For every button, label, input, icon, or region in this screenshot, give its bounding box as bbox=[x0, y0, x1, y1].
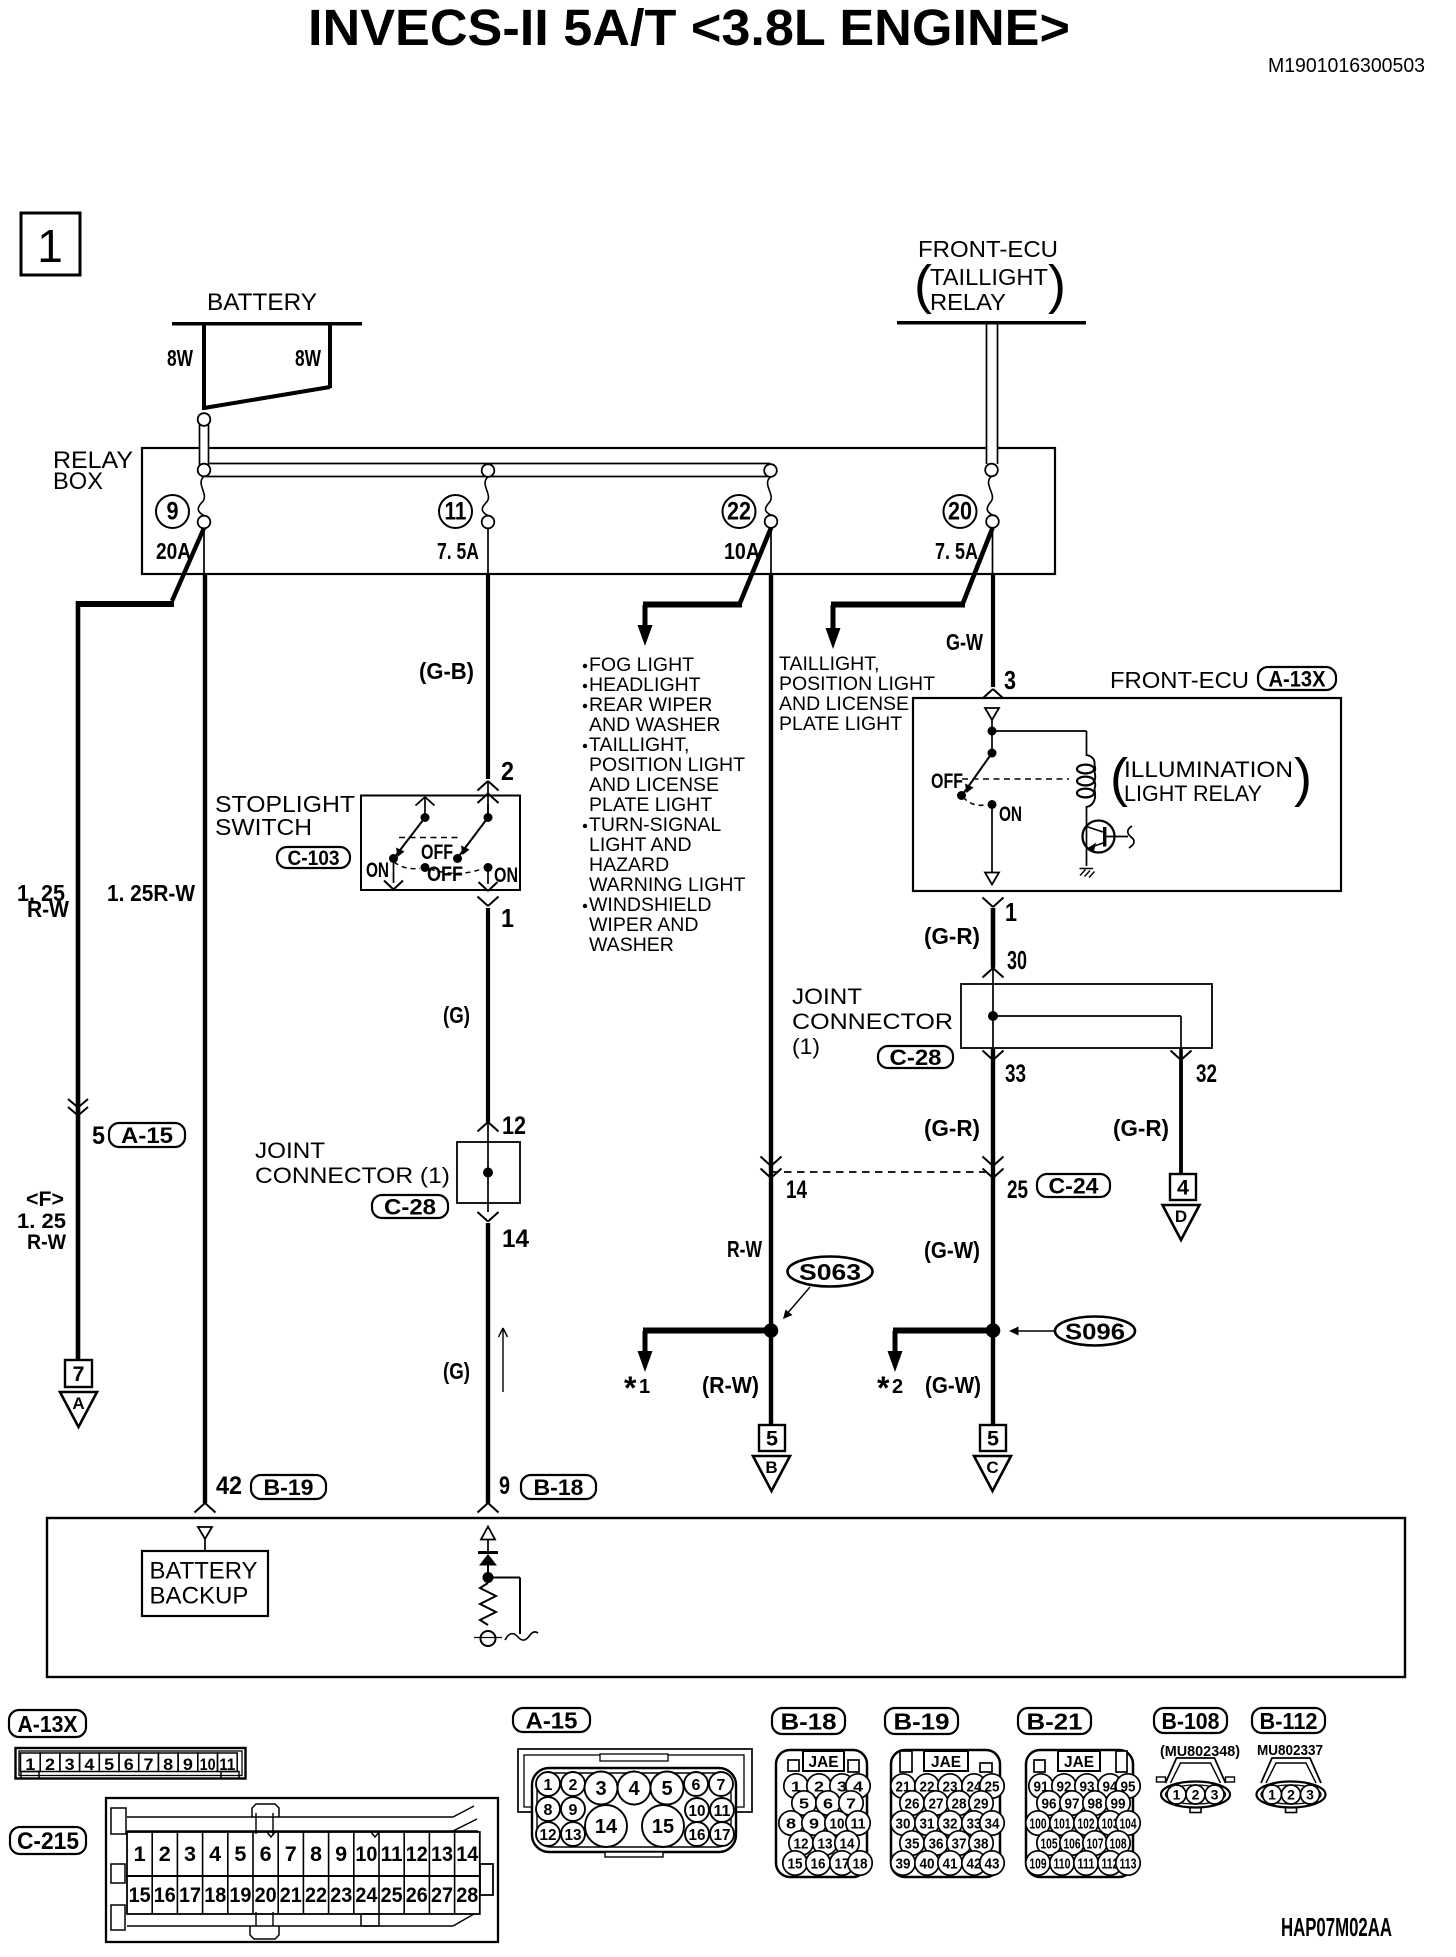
svg-text:R-W: R-W bbox=[27, 896, 69, 922]
svg-text:113: 113 bbox=[1120, 1855, 1137, 1872]
svg-text:104: 104 bbox=[1120, 1815, 1137, 1832]
svg-text:7. 5A: 7. 5A bbox=[437, 538, 479, 564]
svg-text:TAILLIGHT,: TAILLIGHT, bbox=[779, 653, 879, 675]
svg-text:43: 43 bbox=[985, 1855, 1000, 1872]
svg-text:16: 16 bbox=[811, 1855, 826, 1872]
svg-text:14: 14 bbox=[840, 1835, 856, 1852]
svg-text:R-W: R-W bbox=[27, 1231, 66, 1254]
svg-text:15: 15 bbox=[652, 1816, 674, 1838]
svg-text:TAILLIGHT,: TAILLIGHT, bbox=[589, 734, 689, 756]
svg-text:A-13X: A-13X bbox=[18, 1711, 79, 1737]
svg-text:14: 14 bbox=[456, 1843, 478, 1866]
svg-text:12: 12 bbox=[406, 1843, 428, 1866]
svg-text:INVECS-II 5A/T <3.8L ENGINE>: INVECS-II 5A/T <3.8L ENGINE> bbox=[308, 0, 1070, 56]
svg-text:30: 30 bbox=[896, 1815, 911, 1832]
svg-text:JAE: JAE bbox=[931, 1754, 961, 1771]
svg-text:B-21: B-21 bbox=[1027, 1708, 1083, 1734]
svg-text:CONNECTOR (1): CONNECTOR (1) bbox=[255, 1163, 450, 1188]
svg-text:7. 5A: 7. 5A bbox=[935, 538, 978, 564]
svg-text:C-215: C-215 bbox=[17, 1828, 79, 1855]
svg-text:8W: 8W bbox=[167, 345, 193, 371]
svg-text:3: 3 bbox=[65, 1755, 75, 1774]
svg-text:27: 27 bbox=[929, 1795, 944, 1812]
svg-text:1. 25R-W: 1. 25R-W bbox=[107, 880, 195, 906]
svg-text:6: 6 bbox=[823, 1795, 833, 1812]
svg-text:10: 10 bbox=[200, 1755, 216, 1774]
svg-text:28: 28 bbox=[952, 1795, 967, 1812]
svg-text:2: 2 bbox=[501, 756, 514, 786]
svg-text:25: 25 bbox=[1007, 1176, 1028, 1204]
svg-text:C-28: C-28 bbox=[890, 1045, 942, 1070]
svg-text:9: 9 bbox=[167, 498, 179, 526]
svg-text:C-28: C-28 bbox=[384, 1194, 436, 1219]
svg-text:10: 10 bbox=[355, 1843, 377, 1866]
svg-text:(G-W): (G-W) bbox=[925, 1372, 981, 1398]
svg-text:HEADLIGHT: HEADLIGHT bbox=[589, 674, 701, 696]
svg-text:9: 9 bbox=[569, 1802, 578, 1819]
svg-text:39: 39 bbox=[896, 1855, 911, 1872]
svg-text:8: 8 bbox=[310, 1843, 322, 1866]
svg-text:4: 4 bbox=[84, 1755, 95, 1774]
svg-text:42: 42 bbox=[216, 1472, 242, 1500]
svg-text:26: 26 bbox=[406, 1884, 428, 1907]
svg-text:16: 16 bbox=[689, 1827, 706, 1844]
svg-text:107: 107 bbox=[1087, 1835, 1104, 1852]
svg-text:14: 14 bbox=[595, 1816, 618, 1838]
svg-text:(G-R): (G-R) bbox=[924, 923, 980, 949]
svg-text:7: 7 bbox=[285, 1843, 297, 1866]
svg-text:RELAY: RELAY bbox=[930, 289, 1006, 315]
svg-text:17: 17 bbox=[179, 1884, 201, 1907]
svg-text:3: 3 bbox=[1004, 665, 1016, 695]
svg-text:JOINT: JOINT bbox=[255, 1138, 325, 1163]
svg-text:5: 5 bbox=[104, 1755, 114, 1774]
svg-text:(R-W): (R-W) bbox=[702, 1372, 759, 1398]
svg-text:AND LICENSE: AND LICENSE bbox=[779, 693, 909, 715]
svg-text:11: 11 bbox=[714, 1803, 731, 1820]
svg-text:28: 28 bbox=[456, 1884, 478, 1907]
svg-text:33: 33 bbox=[1005, 1060, 1026, 1088]
svg-text:LIGHT AND: LIGHT AND bbox=[589, 834, 692, 856]
svg-text:11: 11 bbox=[851, 1815, 866, 1832]
svg-text:109: 109 bbox=[1030, 1855, 1047, 1872]
svg-text:REAR WIPER: REAR WIPER bbox=[589, 694, 713, 716]
svg-text:10: 10 bbox=[689, 1803, 706, 1820]
svg-text:A-15: A-15 bbox=[526, 1707, 578, 1733]
svg-text:102: 102 bbox=[1078, 1815, 1095, 1832]
svg-text:WINDSHIELD: WINDSHIELD bbox=[589, 894, 711, 916]
svg-text:10: 10 bbox=[830, 1815, 845, 1832]
svg-text:4: 4 bbox=[209, 1843, 221, 1866]
svg-text:29: 29 bbox=[974, 1795, 989, 1812]
svg-text:3: 3 bbox=[595, 1778, 606, 1800]
svg-text:B-18: B-18 bbox=[781, 1708, 837, 1734]
svg-text:A-15: A-15 bbox=[121, 1123, 173, 1148]
svg-text:1: 1 bbox=[1268, 1787, 1276, 1803]
svg-text:41: 41 bbox=[943, 1855, 958, 1872]
svg-text:R-W: R-W bbox=[727, 1236, 762, 1262]
svg-text:11: 11 bbox=[445, 498, 467, 526]
svg-text:1: 1 bbox=[544, 1777, 553, 1794]
svg-text:): ) bbox=[1048, 255, 1066, 315]
svg-text:6: 6 bbox=[692, 1777, 701, 1794]
svg-text:D: D bbox=[1175, 1207, 1187, 1226]
svg-text:BACKUP: BACKUP bbox=[150, 1583, 249, 1610]
svg-text:B-19: B-19 bbox=[894, 1708, 950, 1734]
svg-text:BATTERY: BATTERY bbox=[150, 1558, 258, 1585]
svg-text:FOG LIGHT: FOG LIGHT bbox=[589, 654, 694, 676]
svg-text:31: 31 bbox=[920, 1815, 935, 1832]
svg-text:13: 13 bbox=[818, 1835, 833, 1852]
svg-text:8: 8 bbox=[544, 1802, 553, 1819]
svg-text:AND LICENSE: AND LICENSE bbox=[589, 774, 719, 796]
svg-text:9: 9 bbox=[335, 1843, 347, 1866]
svg-text:20A: 20A bbox=[156, 538, 191, 564]
svg-text:5: 5 bbox=[234, 1843, 246, 1866]
svg-text:32: 32 bbox=[943, 1815, 958, 1832]
svg-text:110: 110 bbox=[1054, 1855, 1071, 1872]
svg-text:ON: ON bbox=[366, 858, 389, 882]
svg-text:): ) bbox=[1294, 748, 1312, 808]
svg-text:(G-R): (G-R) bbox=[924, 1115, 980, 1141]
svg-text:14: 14 bbox=[502, 1225, 529, 1253]
svg-text:13: 13 bbox=[565, 1827, 582, 1844]
svg-text:12: 12 bbox=[502, 1112, 526, 1140]
svg-text:WIPER AND: WIPER AND bbox=[589, 914, 698, 936]
svg-text:20: 20 bbox=[255, 1884, 277, 1907]
svg-text:(G-B): (G-B) bbox=[419, 658, 474, 684]
svg-text:2: 2 bbox=[892, 1376, 903, 1398]
svg-text:A: A bbox=[72, 1394, 84, 1413]
svg-text:111: 111 bbox=[1078, 1855, 1095, 1872]
svg-text:CONNECTOR: CONNECTOR bbox=[792, 1009, 953, 1034]
svg-text:B-18: B-18 bbox=[534, 1475, 584, 1500]
svg-text:LIGHT RELAY: LIGHT RELAY bbox=[1124, 781, 1262, 806]
svg-text:G-W: G-W bbox=[946, 629, 983, 655]
svg-text:2: 2 bbox=[159, 1843, 171, 1866]
svg-text:OFF: OFF bbox=[421, 840, 453, 864]
svg-text:5: 5 bbox=[987, 1427, 999, 1451]
svg-text:17: 17 bbox=[714, 1827, 731, 1844]
svg-text:(G): (G) bbox=[443, 1358, 470, 1384]
svg-text:OFF: OFF bbox=[931, 769, 963, 793]
svg-text:21: 21 bbox=[280, 1884, 302, 1907]
svg-text:30: 30 bbox=[1007, 945, 1027, 975]
svg-text:1: 1 bbox=[501, 903, 514, 933]
svg-text:7: 7 bbox=[846, 1795, 856, 1812]
svg-text:HAP07M02AA: HAP07M02AA bbox=[1281, 1912, 1392, 1942]
svg-text:3: 3 bbox=[1211, 1787, 1219, 1803]
svg-text:25: 25 bbox=[381, 1884, 403, 1907]
svg-text:S096: S096 bbox=[1065, 1319, 1125, 1345]
svg-text:(G): (G) bbox=[443, 1002, 470, 1028]
svg-text:16: 16 bbox=[154, 1884, 176, 1907]
svg-text:24: 24 bbox=[355, 1884, 377, 1907]
svg-text:ON: ON bbox=[494, 863, 518, 887]
svg-text:POSITION LIGHT: POSITION LIGHT bbox=[779, 673, 935, 695]
svg-text:PLATE LIGHT: PLATE LIGHT bbox=[589, 794, 712, 816]
svg-text:6: 6 bbox=[260, 1843, 272, 1866]
svg-text:B-112: B-112 bbox=[1260, 1708, 1318, 1734]
svg-text:1: 1 bbox=[1005, 897, 1017, 927]
svg-text:9: 9 bbox=[809, 1815, 819, 1832]
svg-text:JAE: JAE bbox=[1064, 1754, 1094, 1771]
svg-text:8: 8 bbox=[786, 1815, 796, 1832]
svg-text:MU802337: MU802337 bbox=[1257, 1743, 1323, 1759]
svg-text:108: 108 bbox=[1110, 1835, 1127, 1852]
svg-text:12: 12 bbox=[540, 1827, 557, 1844]
svg-text:105: 105 bbox=[1041, 1835, 1058, 1852]
svg-text:32: 32 bbox=[1196, 1060, 1217, 1088]
svg-text:WARNING LIGHT: WARNING LIGHT bbox=[589, 874, 745, 896]
svg-text:7: 7 bbox=[144, 1755, 154, 1774]
svg-text:1: 1 bbox=[37, 220, 63, 272]
svg-text:<F>: <F> bbox=[26, 1188, 64, 1211]
svg-text:5: 5 bbox=[766, 1427, 778, 1451]
svg-text:HAZARD: HAZARD bbox=[589, 854, 669, 876]
svg-text:100: 100 bbox=[1030, 1815, 1047, 1832]
svg-text:C-24: C-24 bbox=[1049, 1173, 1100, 1198]
svg-text:18: 18 bbox=[204, 1884, 226, 1907]
svg-text:37: 37 bbox=[952, 1835, 967, 1852]
svg-text:TURN-SIGNAL: TURN-SIGNAL bbox=[589, 814, 721, 836]
svg-text:40: 40 bbox=[920, 1855, 935, 1872]
svg-text:98: 98 bbox=[1088, 1795, 1103, 1812]
svg-text:23: 23 bbox=[330, 1884, 352, 1907]
svg-text:ON: ON bbox=[999, 802, 1022, 826]
svg-text:6: 6 bbox=[124, 1755, 134, 1774]
svg-text:22: 22 bbox=[305, 1884, 327, 1907]
svg-text:18: 18 bbox=[853, 1855, 868, 1872]
svg-text:35: 35 bbox=[905, 1835, 920, 1852]
svg-text:7: 7 bbox=[73, 1362, 85, 1386]
svg-text:M1901016300503: M1901016300503 bbox=[1268, 55, 1425, 77]
svg-text:B-108: B-108 bbox=[1162, 1708, 1220, 1734]
svg-text:B-19: B-19 bbox=[264, 1475, 314, 1500]
svg-text:13: 13 bbox=[431, 1843, 453, 1866]
svg-text:PLATE LIGHT: PLATE LIGHT bbox=[779, 713, 902, 735]
svg-text:99: 99 bbox=[1111, 1795, 1126, 1812]
svg-text:1. 25: 1. 25 bbox=[17, 1210, 66, 1233]
svg-text:ILLUMINATION: ILLUMINATION bbox=[1124, 757, 1293, 782]
svg-text:JOINT: JOINT bbox=[792, 984, 862, 1009]
svg-text:12: 12 bbox=[794, 1835, 809, 1852]
svg-text:FRONT-ECU: FRONT-ECU bbox=[1110, 667, 1249, 693]
svg-text:106: 106 bbox=[1064, 1835, 1081, 1852]
svg-text:C: C bbox=[986, 1458, 998, 1477]
svg-text:36: 36 bbox=[929, 1835, 944, 1852]
svg-text:BOX: BOX bbox=[53, 468, 103, 495]
svg-text:BATTERY: BATTERY bbox=[207, 289, 317, 316]
svg-text:JAE: JAE bbox=[809, 1754, 839, 1771]
svg-text:2: 2 bbox=[1287, 1787, 1295, 1803]
svg-text:2: 2 bbox=[1192, 1787, 1200, 1803]
svg-text:19: 19 bbox=[229, 1884, 251, 1907]
svg-text:(1): (1) bbox=[792, 1034, 820, 1059]
svg-text:9: 9 bbox=[183, 1755, 193, 1774]
svg-text:(G-W): (G-W) bbox=[924, 1237, 980, 1263]
svg-text:1: 1 bbox=[639, 1376, 650, 1398]
svg-text:26: 26 bbox=[905, 1795, 920, 1812]
svg-text:*: * bbox=[624, 1370, 637, 1406]
svg-text:7: 7 bbox=[717, 1777, 726, 1794]
svg-text:3: 3 bbox=[184, 1843, 196, 1866]
svg-text:15: 15 bbox=[129, 1884, 151, 1907]
svg-text:10A: 10A bbox=[724, 538, 760, 564]
svg-text:1: 1 bbox=[1173, 1787, 1181, 1803]
svg-text:101: 101 bbox=[1054, 1815, 1071, 1832]
svg-text:8W: 8W bbox=[295, 345, 321, 371]
svg-text:4: 4 bbox=[1177, 1176, 1189, 1200]
svg-text:11: 11 bbox=[381, 1843, 403, 1866]
svg-text:15: 15 bbox=[788, 1855, 803, 1872]
svg-text:14: 14 bbox=[786, 1176, 807, 1204]
svg-text:SWITCH: SWITCH bbox=[215, 814, 312, 840]
svg-text:27: 27 bbox=[431, 1884, 453, 1907]
svg-text:22: 22 bbox=[727, 498, 751, 526]
svg-text:3: 3 bbox=[1306, 1787, 1314, 1803]
svg-text:5: 5 bbox=[92, 1122, 105, 1150]
svg-text:9: 9 bbox=[499, 1472, 510, 1500]
svg-text:4: 4 bbox=[628, 1778, 640, 1800]
svg-text:38: 38 bbox=[974, 1835, 989, 1852]
svg-text:POSITION LIGHT: POSITION LIGHT bbox=[589, 754, 745, 776]
svg-text:FRONT-ECU: FRONT-ECU bbox=[918, 236, 1058, 262]
svg-text:96: 96 bbox=[1042, 1795, 1057, 1812]
svg-text:WASHER: WASHER bbox=[589, 934, 674, 956]
svg-text:C-103: C-103 bbox=[288, 847, 340, 870]
svg-text:*: * bbox=[877, 1370, 890, 1406]
svg-text:5: 5 bbox=[661, 1778, 672, 1800]
svg-text:1: 1 bbox=[134, 1843, 146, 1866]
svg-text:TAILLIGHT: TAILLIGHT bbox=[930, 264, 1048, 290]
svg-text:(G-R): (G-R) bbox=[1113, 1115, 1169, 1141]
svg-text:8: 8 bbox=[163, 1755, 173, 1774]
svg-text:97: 97 bbox=[1065, 1795, 1080, 1812]
svg-text:A-13X: A-13X bbox=[1269, 666, 1326, 691]
svg-text:2: 2 bbox=[45, 1755, 55, 1774]
svg-text:S063: S063 bbox=[799, 1259, 861, 1285]
svg-text:AND WASHER: AND WASHER bbox=[589, 714, 720, 736]
svg-text:34: 34 bbox=[985, 1815, 1001, 1832]
svg-text:5: 5 bbox=[799, 1795, 809, 1812]
svg-text:2: 2 bbox=[569, 1777, 578, 1794]
svg-text:20: 20 bbox=[948, 498, 972, 526]
svg-text:B: B bbox=[765, 1458, 777, 1477]
